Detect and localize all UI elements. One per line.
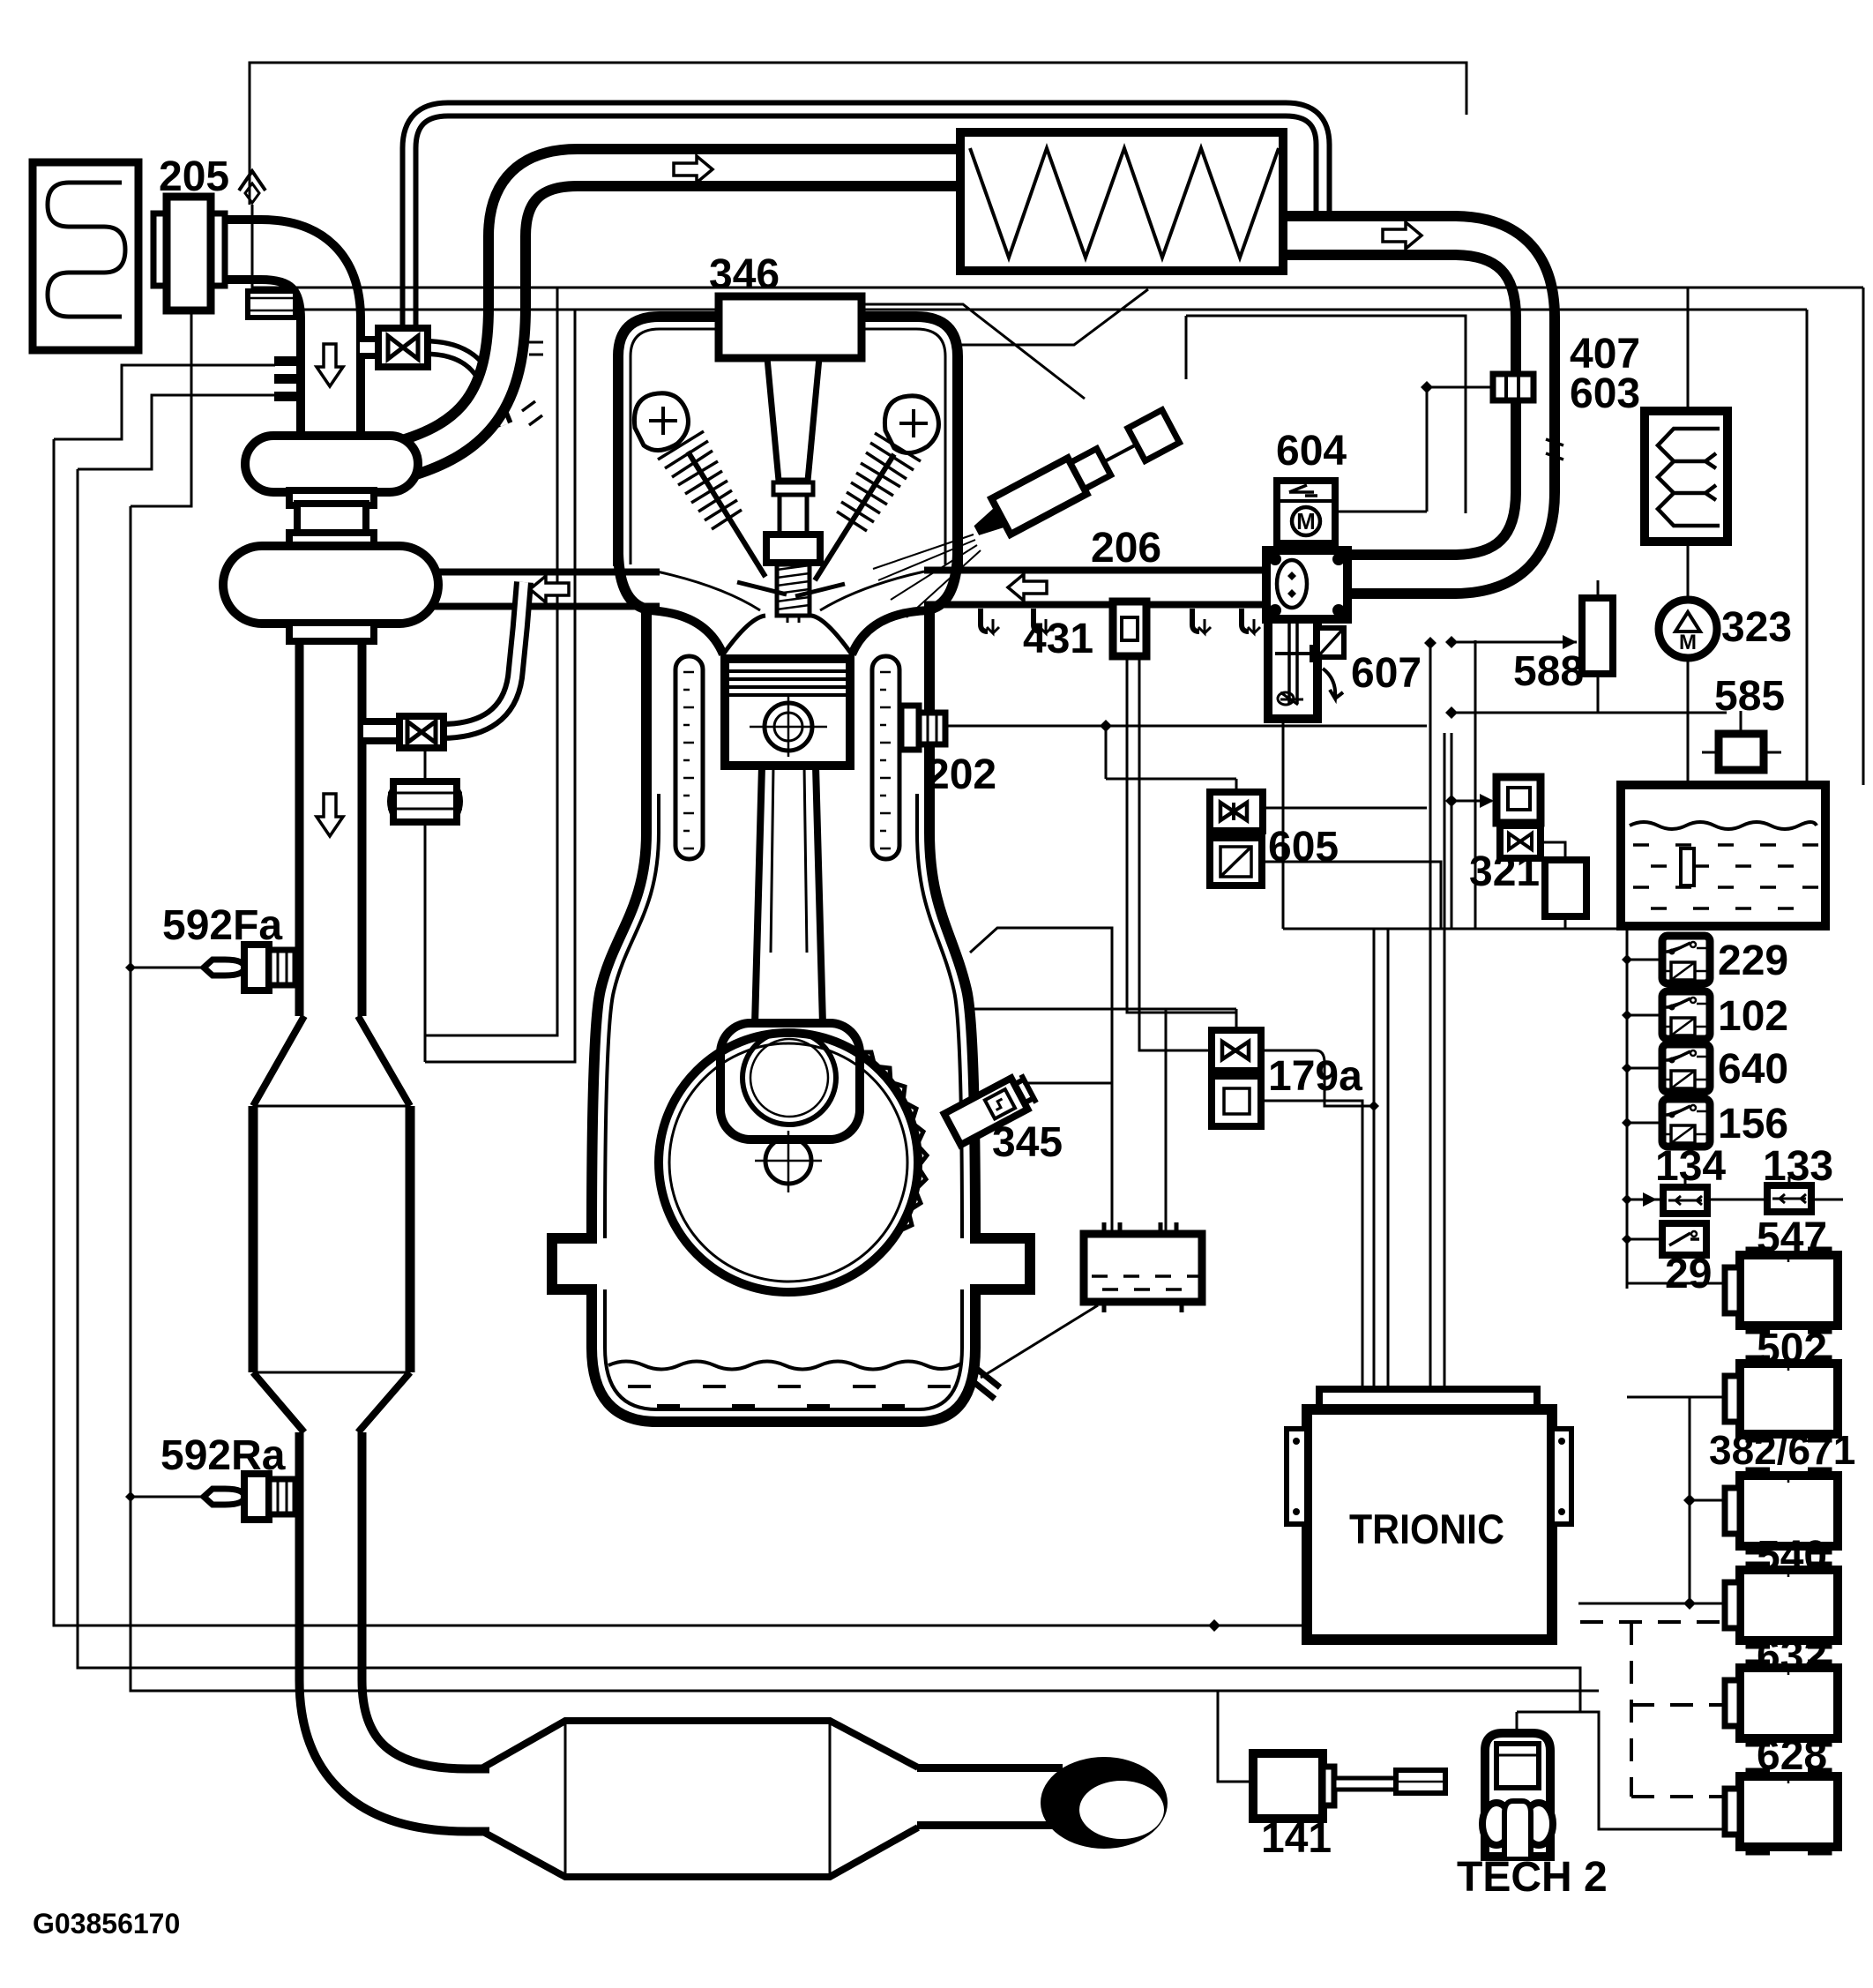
svg-text:G03856170: G03856170 — [33, 1908, 180, 1939]
svg-text:547: 547 — [1757, 1214, 1827, 1261]
svg-text:592Ra: 592Ra — [160, 1432, 286, 1479]
svg-text:345: 345 — [992, 1119, 1063, 1166]
svg-text:632: 632 — [1757, 1633, 1827, 1679]
svg-text:588: 588 — [1513, 648, 1584, 695]
svg-text:431: 431 — [1023, 616, 1093, 662]
svg-text:229: 229 — [1718, 938, 1788, 984]
svg-text:M: M — [1296, 508, 1316, 534]
svg-text:603: 603 — [1570, 370, 1640, 417]
svg-text:156: 156 — [1718, 1101, 1788, 1147]
svg-text:604: 604 — [1276, 428, 1347, 475]
svg-text:346: 346 — [709, 251, 780, 298]
svg-text:TECH 2: TECH 2 — [1457, 1854, 1608, 1901]
svg-text:605: 605 — [1268, 824, 1339, 871]
svg-text:502: 502 — [1757, 1326, 1827, 1372]
svg-text:321: 321 — [1469, 848, 1540, 895]
svg-text:M: M — [1679, 631, 1697, 654]
svg-text:640: 640 — [1718, 1046, 1788, 1093]
svg-text:628: 628 — [1757, 1732, 1827, 1779]
svg-text:134: 134 — [1655, 1143, 1726, 1190]
svg-text:323: 323 — [1721, 604, 1792, 651]
svg-text:607: 607 — [1351, 650, 1422, 697]
svg-text:141: 141 — [1261, 1815, 1332, 1862]
svg-text:205: 205 — [159, 153, 229, 200]
svg-text:179a: 179a — [1268, 1053, 1362, 1100]
svg-text:202: 202 — [926, 751, 996, 798]
svg-text:133: 133 — [1763, 1143, 1833, 1190]
svg-text:TRIONIC: TRIONIC — [1349, 1506, 1504, 1552]
svg-text:592Fa: 592Fa — [162, 902, 282, 949]
svg-text:585: 585 — [1714, 673, 1785, 720]
svg-text:29: 29 — [1665, 1251, 1712, 1297]
svg-text:102: 102 — [1718, 993, 1788, 1040]
svg-text:382/671: 382/671 — [1709, 1427, 1855, 1473]
svg-text:540: 540 — [1757, 1533, 1827, 1580]
svg-text:206: 206 — [1091, 525, 1161, 572]
